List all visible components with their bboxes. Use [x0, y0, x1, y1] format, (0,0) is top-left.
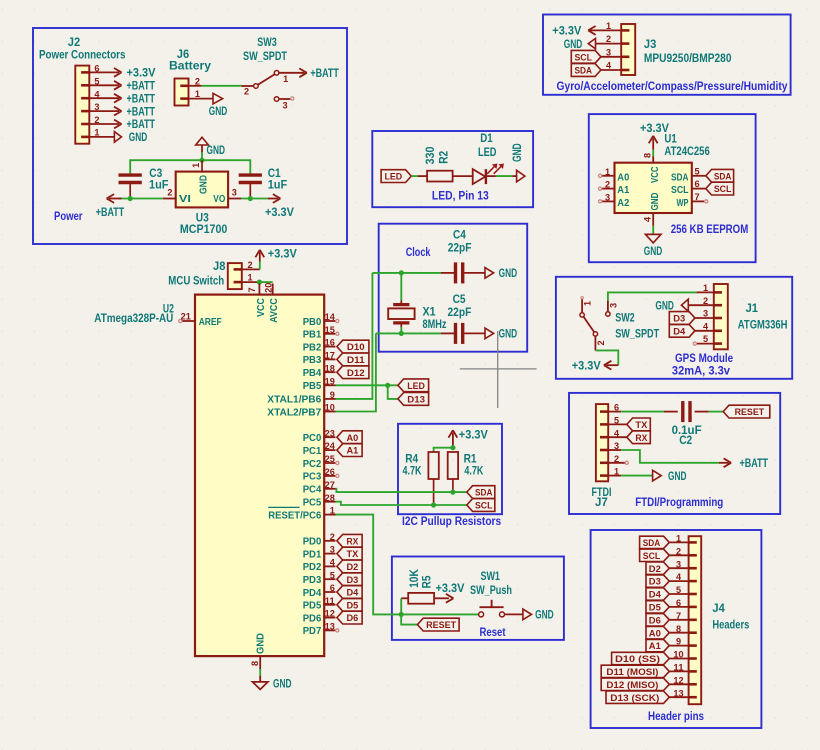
tag D2 at U2 PD2 — [337, 560, 362, 573]
tag D6 at U2 PD6 — [337, 611, 362, 624]
svg-text:D2: D2 — [347, 562, 359, 573]
svg-text:1: 1 — [247, 273, 253, 284]
svg-text:+3.3V: +3.3V — [459, 428, 488, 442]
wire C5 line — [376, 332, 454, 334]
svg-text:2: 2 — [605, 180, 610, 191]
svg-text:7: 7 — [676, 611, 681, 622]
svg-text:22pF: 22pF — [448, 240, 472, 254]
U2 pin 6 PD4 — [303, 583, 336, 599]
svg-text:D3: D3 — [649, 577, 661, 588]
U2 pin 28 PC5 — [303, 493, 336, 509]
svg-text:1: 1 — [676, 534, 682, 545]
svg-text:MCU Switch: MCU Switch — [168, 273, 224, 287]
J7 pin3 line — [608, 449, 621, 451]
svg-text:1: 1 — [703, 283, 709, 294]
svg-text:GND: GND — [273, 677, 292, 691]
svg-text:SDA: SDA — [671, 171, 689, 183]
svg-text:RX: RX — [347, 536, 359, 547]
svg-text:AVCC: AVCC — [268, 298, 280, 323]
svg-text:D6: D6 — [347, 613, 359, 624]
junction X1 top — [399, 270, 404, 275]
regulator U3 MCP1700 — [163, 160, 241, 236]
svg-text:3: 3 — [94, 102, 99, 113]
U1 GND pin name — [649, 192, 661, 210]
svg-text:1: 1 — [330, 506, 336, 517]
wire +3.3V to pin2 — [259, 262, 261, 270]
wire j8 pin1 to vcc avcc — [259, 281, 272, 283]
J8 pin 1 line — [242, 273, 260, 284]
wire J6 to SW3 — [202, 85, 242, 87]
svg-text:PB3: PB3 — [303, 354, 322, 366]
svg-text:4: 4 — [606, 61, 612, 72]
svg-text:+3.3V: +3.3V — [127, 66, 156, 80]
wire to RESET tag — [401, 614, 417, 624]
svg-text:D3: D3 — [673, 314, 685, 325]
J4 pin 4 tag D3 — [646, 572, 689, 588]
wire R5 to reset net — [400, 598, 402, 614]
resistor R1 — [448, 452, 484, 493]
svg-text:4: 4 — [94, 89, 100, 100]
svg-text:VCC: VCC — [255, 298, 267, 317]
J3 pin 1 +3.3V — [552, 21, 621, 38]
note FTDI/Programming — [635, 495, 723, 509]
svg-text:1: 1 — [606, 21, 612, 32]
U2 pin 17 PB3 — [303, 351, 336, 367]
J4 pin 2 tag SCL — [640, 546, 689, 562]
svg-text:A2: A2 — [617, 197, 629, 209]
connector J2 — [39, 35, 126, 144]
junction +3.3V i2c — [450, 445, 455, 450]
svg-text:D2: D2 — [649, 564, 661, 575]
ground C5 — [485, 327, 517, 341]
wire SW2 to +3.3V — [595, 350, 618, 365]
J7 pin5 TX tag — [608, 418, 650, 431]
wire U2 gnd — [259, 669, 261, 676]
ground below U2 — [253, 676, 292, 691]
C5 gnd pin — [464, 332, 485, 334]
svg-text:R2: R2 — [437, 150, 451, 163]
wire XTAL2 to clock — [336, 333, 376, 411]
J4 pin 1 tag SDA — [640, 534, 689, 550]
J4 pin 12 tag D12 (MISO) — [601, 675, 688, 691]
tag LED in led box — [381, 170, 411, 183]
svg-text:D5: D5 — [347, 600, 359, 611]
U2 pin 13 PD7 — [303, 622, 339, 638]
svg-text:D4: D4 — [673, 326, 686, 337]
svg-text:PD1: PD1 — [303, 548, 322, 560]
svg-text:2: 2 — [676, 546, 681, 557]
tag RX at U2 PD0 — [337, 534, 362, 547]
wire gnd to rail — [201, 152, 203, 160]
svg-text:PB4: PB4 — [303, 367, 322, 379]
svg-text:3: 3 — [282, 100, 287, 111]
junction j8 pin1 — [257, 280, 262, 285]
svg-text:A1: A1 — [649, 641, 662, 652]
svg-text:TX: TX — [347, 549, 359, 560]
svg-text:12: 12 — [325, 609, 335, 620]
svg-text:J3: J3 — [644, 37, 657, 51]
wire XTAL1 to clock — [336, 273, 373, 399]
svg-text:15: 15 — [325, 325, 336, 336]
svg-text:D6: D6 — [649, 615, 661, 626]
svg-text:8MHz: 8MHz — [423, 317, 447, 331]
svg-text:VI: VI — [179, 193, 191, 205]
svg-text:8: 8 — [676, 624, 682, 635]
svg-text:3: 3 — [608, 303, 619, 308]
wire C2 to RESET — [695, 411, 724, 413]
svg-text:D13 (SCK): D13 (SCK) — [610, 693, 659, 704]
J4 pin 8 tag A0 — [646, 624, 689, 640]
svg-text:D11: D11 — [347, 355, 365, 366]
svg-text:PC0: PC0 — [303, 432, 322, 444]
wire led tag to R2 — [411, 175, 417, 177]
J4 pin 10 tag D10 (SS) — [612, 650, 689, 666]
tag SCL i2c — [467, 499, 495, 512]
svg-text:1: 1 — [94, 128, 100, 139]
svg-text:TX: TX — [635, 420, 648, 431]
U2 pin 19 PB5 — [303, 376, 336, 392]
svg-text:330: 330 — [423, 146, 437, 164]
U2 pin 14 PB0 — [303, 312, 339, 328]
tag RESET reset box — [417, 618, 459, 631]
svg-text:+3.3V: +3.3V — [640, 121, 669, 135]
svg-text:ATGM336H: ATGM336H — [738, 317, 788, 331]
capacitor C2 — [672, 401, 702, 447]
power label +BATT left — [96, 194, 125, 219]
svg-text:+3.3V: +3.3V — [265, 205, 294, 219]
crystal X1 — [388, 273, 446, 331]
U1 pin 1 A0 — [599, 167, 630, 184]
tag D10 at U2 PB2 — [337, 340, 369, 353]
wire SDA — [336, 489, 467, 492]
svg-text:1: 1 — [195, 89, 201, 100]
ground above U3 — [196, 137, 226, 157]
svg-text:SCL: SCL — [671, 184, 689, 196]
note Reset — [480, 625, 506, 639]
J4 pin 11 tag D11 (MOSI) — [601, 663, 688, 679]
svg-text:+BATT: +BATT — [127, 117, 156, 131]
J4 pin 6 tag D5 — [646, 598, 689, 614]
svg-text:7: 7 — [694, 192, 699, 203]
J7 pin number 2 — [614, 454, 619, 465]
J3 pin 4 SDA tag — [571, 61, 621, 77]
C4 gnd pin — [464, 272, 485, 274]
graphic box Headers — [591, 530, 762, 728]
svg-text:11: 11 — [673, 663, 684, 674]
svg-text:3: 3 — [606, 47, 611, 58]
svg-text:10: 10 — [673, 650, 683, 661]
U2 pin 18 PB4 — [303, 363, 336, 379]
J3 pin 3 SCL tag — [571, 47, 621, 63]
svg-text:PD7: PD7 — [303, 625, 322, 637]
svg-text:PC5: PC5 — [303, 497, 322, 509]
svg-text:LED: LED — [478, 145, 497, 159]
U2 pin 27 PC4 — [303, 480, 336, 496]
svg-text:Header pins: Header pins — [648, 709, 704, 723]
svg-text:13: 13 — [325, 622, 335, 633]
svg-text:PB1: PB1 — [303, 329, 322, 341]
svg-text:GND: GND — [255, 633, 267, 654]
svg-text:PD0: PD0 — [303, 536, 322, 548]
svg-text:2: 2 — [167, 187, 172, 198]
J3 pin 2 GND — [564, 34, 621, 51]
svg-text:AT24C256: AT24C256 — [664, 144, 710, 158]
svg-text:21: 21 — [181, 312, 192, 323]
J7 pin number 6 — [614, 403, 619, 414]
switch SW2 SW_SPDT — [580, 297, 660, 351]
junction reset — [399, 612, 404, 617]
power +3.3V j8 — [255, 247, 297, 262]
svg-text:SW_SPDT: SW_SPDT — [615, 326, 660, 340]
svg-text:SCL: SCL — [714, 184, 732, 195]
svg-text:10: 10 — [325, 403, 335, 414]
note Gyro — [557, 79, 788, 93]
svg-text:5: 5 — [703, 334, 709, 345]
svg-text:ATmega328P-AU: ATmega328P-AU — [94, 311, 173, 325]
svg-text:GND: GND — [510, 143, 524, 162]
svg-text:VO: VO — [213, 193, 225, 205]
wire U3 out — [241, 198, 268, 200]
graphic box Gyro — [543, 15, 791, 95]
graphic box Reset — [392, 557, 564, 640]
svg-text:A0: A0 — [347, 433, 359, 444]
svg-text:PC3: PC3 — [303, 471, 322, 483]
svg-text:7: 7 — [247, 287, 258, 292]
switch SW1 SW_Push — [470, 569, 523, 617]
svg-text:12: 12 — [673, 675, 683, 686]
note Power — [54, 209, 83, 223]
svg-text:2: 2 — [596, 340, 607, 345]
U2 pin 26 PC3 — [303, 467, 339, 483]
svg-text:6: 6 — [330, 583, 335, 594]
svg-text:SW1: SW1 — [480, 569, 500, 583]
svg-text:11: 11 — [325, 596, 336, 607]
svg-text:PB2: PB2 — [303, 341, 322, 353]
svg-text:LED: LED — [384, 172, 402, 183]
svg-text:LED, Pin 13: LED, Pin 13 — [432, 189, 489, 203]
capacitor C3 — [119, 166, 169, 198]
ic U1 AT24C256 — [615, 131, 711, 213]
svg-text:1: 1 — [283, 74, 289, 85]
J7 pin number 1 — [614, 467, 620, 478]
J4 pin 9 tag A1 — [646, 637, 689, 653]
U1 pin 8 VCC — [643, 152, 661, 183]
svg-text:6: 6 — [694, 179, 699, 190]
svg-text:GND: GND — [207, 143, 226, 157]
svg-text:SDA: SDA — [574, 66, 592, 77]
svg-text:GND: GND — [668, 469, 687, 483]
svg-text:PD2: PD2 — [303, 561, 322, 573]
svg-text:A0: A0 — [649, 628, 661, 639]
svg-text:GND: GND — [209, 104, 228, 118]
svg-text:GND: GND — [198, 175, 210, 194]
svg-text:D13: D13 — [407, 395, 425, 406]
tag D5 at U2 PD5 — [337, 598, 362, 611]
wire top rail C3-C1 — [130, 160, 250, 175]
svg-text:2: 2 — [195, 76, 200, 87]
svg-text:SW_SPDT: SW_SPDT — [243, 49, 288, 63]
svg-text:GND: GND — [129, 130, 148, 144]
graphic box I2C — [398, 424, 502, 514]
note I2C Pullup Resistors — [402, 514, 502, 528]
J1 pin 4 D4 tag — [669, 321, 714, 337]
diode D1 LED — [473, 131, 504, 184]
U2 pin 20 AVCC — [263, 283, 280, 323]
svg-text:9: 9 — [676, 637, 681, 648]
svg-text:4.7K: 4.7K — [403, 464, 422, 478]
svg-text:PB0: PB0 — [303, 316, 322, 328]
svg-text:PD4: PD4 — [303, 587, 322, 599]
svg-text:Reset: Reset — [480, 625, 506, 639]
editor crosshair cursor — [460, 331, 537, 408]
note Header pins — [648, 709, 704, 723]
J6 pin 1 GND — [189, 89, 228, 118]
U1 pin 5 SDA — [671, 166, 734, 183]
junction X1 bottom — [399, 331, 404, 336]
wire D1 to gnd — [496, 175, 517, 177]
svg-text:RESET: RESET — [426, 620, 456, 631]
ground led box — [510, 143, 525, 182]
U2 pin 4 PD2 — [303, 558, 336, 574]
J2 pin 1 GND label — [89, 128, 147, 145]
U2 pin 24 PC1 — [303, 441, 336, 457]
svg-text:PC4: PC4 — [303, 484, 322, 496]
connector J6 Battery — [169, 47, 211, 106]
wire pin1 to gnd — [621, 475, 652, 477]
svg-text:D11 (MOSI): D11 (MOSI) — [606, 667, 658, 678]
junction top rail — [199, 158, 204, 163]
U2 pin 2 PD0 — [303, 532, 336, 548]
svg-text:D3: D3 — [347, 575, 359, 586]
svg-text:2: 2 — [244, 87, 249, 98]
svg-text:FTDI/Programming: FTDI/Programming — [635, 495, 723, 509]
svg-text:3: 3 — [232, 187, 237, 198]
svg-text:J1: J1 — [746, 301, 759, 315]
ground below U1 — [644, 234, 663, 258]
svg-text:4: 4 — [703, 321, 709, 332]
svg-text:Power Connectors: Power Connectors — [39, 48, 126, 62]
svg-text:RESET: RESET — [735, 407, 765, 418]
U2 pin 10 XTAL2/PB7 — [267, 403, 335, 419]
junction C3 bottom — [128, 196, 133, 201]
svg-text:3: 3 — [605, 193, 610, 204]
tag D3 at U2 PD3 — [337, 573, 362, 586]
J7 pin number 3 — [614, 441, 619, 452]
svg-text:28: 28 — [325, 493, 336, 504]
tag A0 at U2 PC0 — [337, 431, 362, 444]
U1 pin 6 SCL — [671, 179, 734, 196]
svg-text:2: 2 — [703, 296, 708, 307]
svg-text:+3.3V: +3.3V — [436, 581, 465, 595]
svg-text:SDA: SDA — [643, 538, 661, 549]
capacitor C1 — [239, 166, 288, 198]
svg-text:14: 14 — [325, 312, 336, 323]
note EEPROM — [671, 222, 749, 236]
connector J1 ATGM336H — [714, 284, 788, 349]
svg-text:PC2: PC2 — [303, 458, 322, 470]
connector J3 — [621, 24, 732, 75]
svg-text:4: 4 — [643, 216, 654, 222]
graphic box Power section — [33, 28, 347, 244]
J7 pin number 5 — [614, 416, 620, 427]
svg-text:2: 2 — [606, 34, 611, 45]
svg-text:19: 19 — [325, 376, 335, 387]
ground C4 — [485, 266, 517, 280]
svg-text:+BATT: +BATT — [740, 456, 769, 470]
svg-text:17: 17 — [325, 351, 335, 362]
U1 pin 2 A1 — [599, 180, 630, 197]
ground reset — [523, 608, 554, 622]
svg-text:1: 1 — [583, 300, 594, 306]
svg-text:Battery: Battery — [169, 59, 211, 73]
svg-text:A1: A1 — [617, 184, 629, 196]
svg-text:GND: GND — [564, 37, 583, 51]
svg-text:256 KB EEPROM: 256 KB EEPROM — [671, 222, 749, 236]
svg-text:27: 27 — [325, 480, 335, 491]
U2 pin 11 PD5 — [303, 596, 336, 612]
tag A1 at U2 PC1 — [337, 444, 362, 457]
svg-text:A1: A1 — [347, 446, 359, 457]
svg-text:5: 5 — [330, 570, 336, 581]
U2 pin 3 PD1 — [303, 545, 336, 561]
svg-text:3: 3 — [676, 559, 681, 570]
svg-text:D12: D12 — [347, 368, 365, 379]
svg-text:4: 4 — [330, 558, 336, 569]
svg-text:SW_Push: SW_Push — [470, 583, 512, 597]
U2 pin 16 PB2 — [303, 338, 336, 354]
note GPS Module — [672, 351, 734, 377]
svg-text:2: 2 — [247, 260, 252, 271]
wire X1 bottom — [400, 327, 402, 333]
J4 pin 3 tag D2 — [646, 559, 689, 575]
svg-text:2: 2 — [94, 115, 99, 126]
svg-text:26: 26 — [325, 467, 335, 478]
svg-text:8: 8 — [250, 660, 261, 666]
svg-text:13: 13 — [673, 688, 683, 699]
svg-text:24: 24 — [325, 441, 336, 452]
svg-text:4: 4 — [676, 572, 682, 583]
J6 pin 2 — [189, 76, 202, 87]
svg-text:GND: GND — [649, 192, 661, 210]
svg-text:+BATT: +BATT — [310, 66, 339, 80]
J4 pin 7 tag D6 — [646, 611, 689, 627]
svg-text:I2C Pullup Resistors: I2C Pullup Resistors — [402, 514, 502, 528]
svg-text:9: 9 — [330, 390, 335, 401]
J4 pin 5 tag D4 — [646, 585, 689, 601]
wire C4 line — [372, 272, 454, 274]
svg-text:MPU9250/BMP280: MPU9250/BMP280 — [644, 51, 732, 65]
wire SCL — [336, 502, 467, 505]
svg-text:6: 6 — [94, 64, 99, 75]
wire pin6 to C2 — [621, 411, 678, 413]
svg-text:D10 (SS): D10 (SS) — [615, 654, 660, 665]
svg-text:2: 2 — [330, 532, 335, 543]
junction C1 bottom — [248, 196, 253, 201]
svg-text:GND: GND — [499, 327, 518, 341]
svg-text:+BATT: +BATT — [96, 205, 125, 219]
svg-text:4.7K: 4.7K — [464, 464, 483, 478]
svg-text:J8: J8 — [213, 259, 226, 273]
svg-text:Headers: Headers — [712, 617, 749, 631]
wire PB5 to LED — [336, 384, 398, 386]
svg-text:XTAL1/PB6: XTAL1/PB6 — [267, 394, 321, 406]
graphic box EEPROM — [589, 114, 756, 262]
J1 pin 3 D3 tag — [669, 309, 714, 325]
junction SDA — [450, 490, 455, 495]
ground ftdi — [653, 469, 687, 483]
svg-text:22pF: 22pF — [448, 305, 472, 319]
svg-text:Clock: Clock — [406, 245, 431, 259]
